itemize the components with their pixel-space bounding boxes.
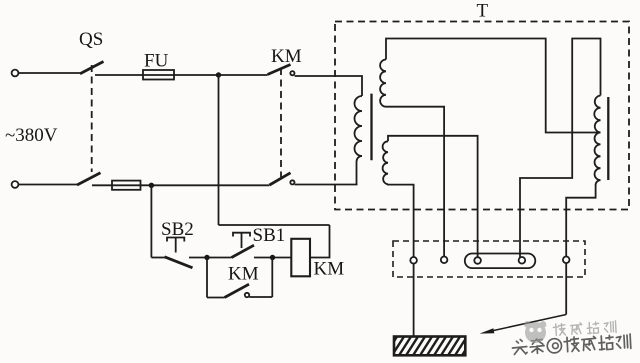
wire KM B to primary bottom — [295, 184, 358, 186]
contactor KM main contact A blade — [268, 65, 291, 75]
wire QS to FU1 — [95, 74, 219, 76]
wire primary bottom lead — [357, 156, 363, 185]
wire control tap from junction B down to SB2 — [150, 185, 152, 257]
core (left) — [370, 94, 372, 161]
svg-text:T: T — [477, 1, 489, 22]
wire control top rail — [219, 224, 330, 226]
workpiece (hatched electrode plate) — [384, 335, 475, 357]
wire QS to FU2 — [92, 184, 270, 186]
svg-text:KM: KM — [228, 264, 259, 285]
terminal L2 — [12, 181, 19, 188]
right winding W3 lower section — [595, 133, 601, 181]
wire junction A to KM contact — [219, 74, 268, 76]
wire to SB2 — [151, 257, 165, 259]
secondary winding S2 (lower) — [383, 141, 388, 184]
wire rail to coil right — [310, 225, 330, 258]
pushbutton SB1 (NO) blade — [232, 245, 255, 257]
wire S2 top lead to terminal 3 — [388, 136, 478, 257]
electrode arrow — [489, 315, 566, 332]
svg-text:FU: FU — [144, 51, 169, 72]
SB1 plunger — [233, 233, 250, 248]
KM linkage dashed — [280, 68, 282, 177]
terminal 4 — [519, 257, 526, 264]
node junction A — [216, 72, 221, 77]
coil KM — [291, 239, 310, 276]
node C2 — [270, 255, 275, 260]
svg-text:KM: KM — [271, 46, 302, 67]
terminal 5 — [563, 257, 570, 264]
svg-text:~380V: ~380V — [5, 125, 58, 146]
svg-text:SB2: SB2 — [161, 219, 194, 240]
wire S1 top lead — [386, 39, 601, 133]
core (right) — [607, 97, 609, 180]
wire SB1 to coil — [254, 257, 291, 259]
jumper link (rounded) — [465, 254, 536, 269]
terminal 2 — [441, 257, 448, 264]
wire aux branch left riser — [206, 258, 208, 298]
wire KM A to primary top — [295, 76, 362, 96]
wire L1 to QS — [18, 72, 80, 74]
wire S1 bottom lead to terminal 2 — [386, 107, 444, 257]
fuse FU2 — [112, 181, 141, 190]
svg-text:QS: QS — [79, 29, 103, 50]
wire control tap from junction A down — [218, 75, 220, 225]
wire L2 to QS — [18, 184, 77, 186]
terminal 1 — [410, 257, 417, 264]
wire W3 bottom lead to terminal 5 — [566, 180, 600, 256]
secondary winding S1 (upper) — [380, 60, 386, 107]
pushbutton SB2 (NC) blade — [165, 257, 193, 268]
svg-text:SB1: SB1 — [253, 225, 286, 246]
watermark — [511, 320, 631, 355]
contactor KM aux contact blade — [225, 284, 250, 297]
contactor KM main contact B blade — [270, 173, 291, 185]
wire W3 top lead — [520, 39, 601, 258]
terminal L1 — [12, 70, 19, 77]
fuse FU1 — [143, 70, 174, 80]
transformer T dashed enclosure — [335, 22, 629, 210]
wire S2 bottom lead to terminal 1 — [388, 184, 414, 257]
SB2 plunger — [167, 238, 184, 253]
terminal 3 — [474, 257, 481, 264]
QS linkage dashed — [91, 65, 93, 172]
terminal board dashed box — [393, 241, 585, 277]
wire aux bottom left — [207, 297, 225, 299]
switch QS pole B blade — [77, 173, 101, 185]
wire SB2 to node C1 — [189, 257, 232, 259]
wire terminal 5 down — [565, 263, 567, 314]
svg-text:KM: KM — [314, 259, 345, 280]
switch QS pole A blade — [80, 62, 104, 74]
node C1 — [204, 255, 209, 260]
node junction B — [149, 183, 154, 188]
wire terminal 1 to workpiece — [413, 264, 415, 337]
wire aux bottom right — [249, 296, 272, 298]
transformer primary winding — [355, 96, 362, 156]
right winding W3 upper section — [594, 96, 600, 133]
wire aux right riser — [271, 258, 273, 298]
